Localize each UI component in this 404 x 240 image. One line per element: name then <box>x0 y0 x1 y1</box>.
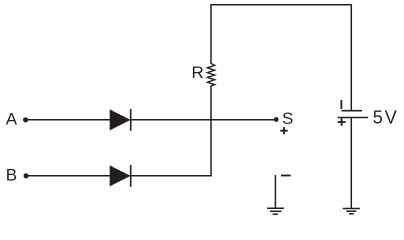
wire input B <box>27 175 212 177</box>
wire R branch lower <box>210 86 212 177</box>
battery plus sign <box>338 118 346 126</box>
node A <box>23 117 28 122</box>
wire battery top lead <box>350 4 352 111</box>
svg-text:B: B <box>6 165 17 184</box>
resistor R <box>207 63 214 85</box>
wire top rail <box>211 4 351 6</box>
svg-text:V: V <box>385 108 397 128</box>
output minus sign <box>281 175 291 177</box>
svg-text:R: R <box>192 63 204 82</box>
node S plus sign <box>280 127 287 134</box>
wire diode A cathode to node S <box>131 119 275 121</box>
ground (output reference) <box>267 175 284 214</box>
diode D2 (input B) <box>110 165 131 187</box>
wire input A <box>26 119 110 121</box>
ground (battery) <box>343 209 360 214</box>
battery V1 plates <box>338 111 368 118</box>
node B <box>24 173 29 178</box>
svg-text:5: 5 <box>373 108 383 128</box>
wire R branch upper <box>210 4 212 64</box>
diode D1 (input A) <box>110 109 131 131</box>
node S <box>274 117 279 122</box>
svg-text:S: S <box>282 109 293 128</box>
wire battery bottom lead <box>350 117 352 208</box>
battery negative tick <box>340 100 342 109</box>
svg-text:A: A <box>6 110 18 129</box>
